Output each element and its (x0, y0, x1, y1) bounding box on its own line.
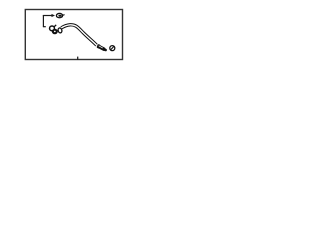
bottom tick (77, 57, 79, 60)
hose socket (58, 28, 63, 34)
banjo eye ring (50, 26, 55, 31)
sealing ring (slashed) (110, 46, 115, 51)
hose tube (61, 25, 96, 45)
banjo bolt ring (52, 29, 57, 34)
arrow to clip (43, 14, 55, 17)
frame border (25, 10, 122, 60)
clip (grommet) (56, 13, 64, 17)
bolt tab (54, 25, 56, 27)
end fitting nut (96, 44, 106, 52)
end fitting tip (104, 49, 107, 52)
bracket vertical line (42, 15, 44, 27)
background (0, 0, 150, 72)
leader to hose fitting (43, 26, 46, 28)
